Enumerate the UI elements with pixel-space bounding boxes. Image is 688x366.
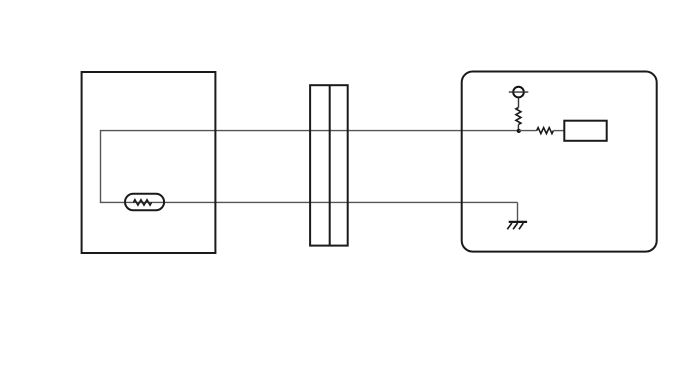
wire: circle to resistor R1 [518,97,520,107]
right control unit box (rounded) [462,72,657,252]
wire: bottom net from left box to ground branch [100,201,518,203]
wire: resistor R2 to input box [553,130,564,132]
node A (junction dot) [517,129,521,133]
wire: vertical drop to ground [517,202,519,221]
left module box [82,72,216,253]
power terminal crossbar [509,91,529,93]
wire: top net from left box to node A [101,130,519,132]
connector divider [329,85,331,245]
lamp body (stadium outline) [125,194,164,211]
power terminal circle [513,87,524,98]
input block box [564,121,606,141]
resistor R2 (horizontal zigzag) [537,128,554,134]
connector (two-pin inline) outer rect [310,85,348,245]
lamp resistor element zigzag [133,200,151,205]
ground hatch 1 [507,223,512,229]
wire: resistor R1 to node A [517,125,519,131]
ground hatch 3 [519,223,523,229]
wire: node A to resistor R2 [519,130,537,132]
resistor R1 (vertical zigzag) [516,108,521,125]
ground hatch 2 [513,223,518,229]
ground bar [509,221,527,223]
wire: left vertical segment inside left box [100,130,102,203]
